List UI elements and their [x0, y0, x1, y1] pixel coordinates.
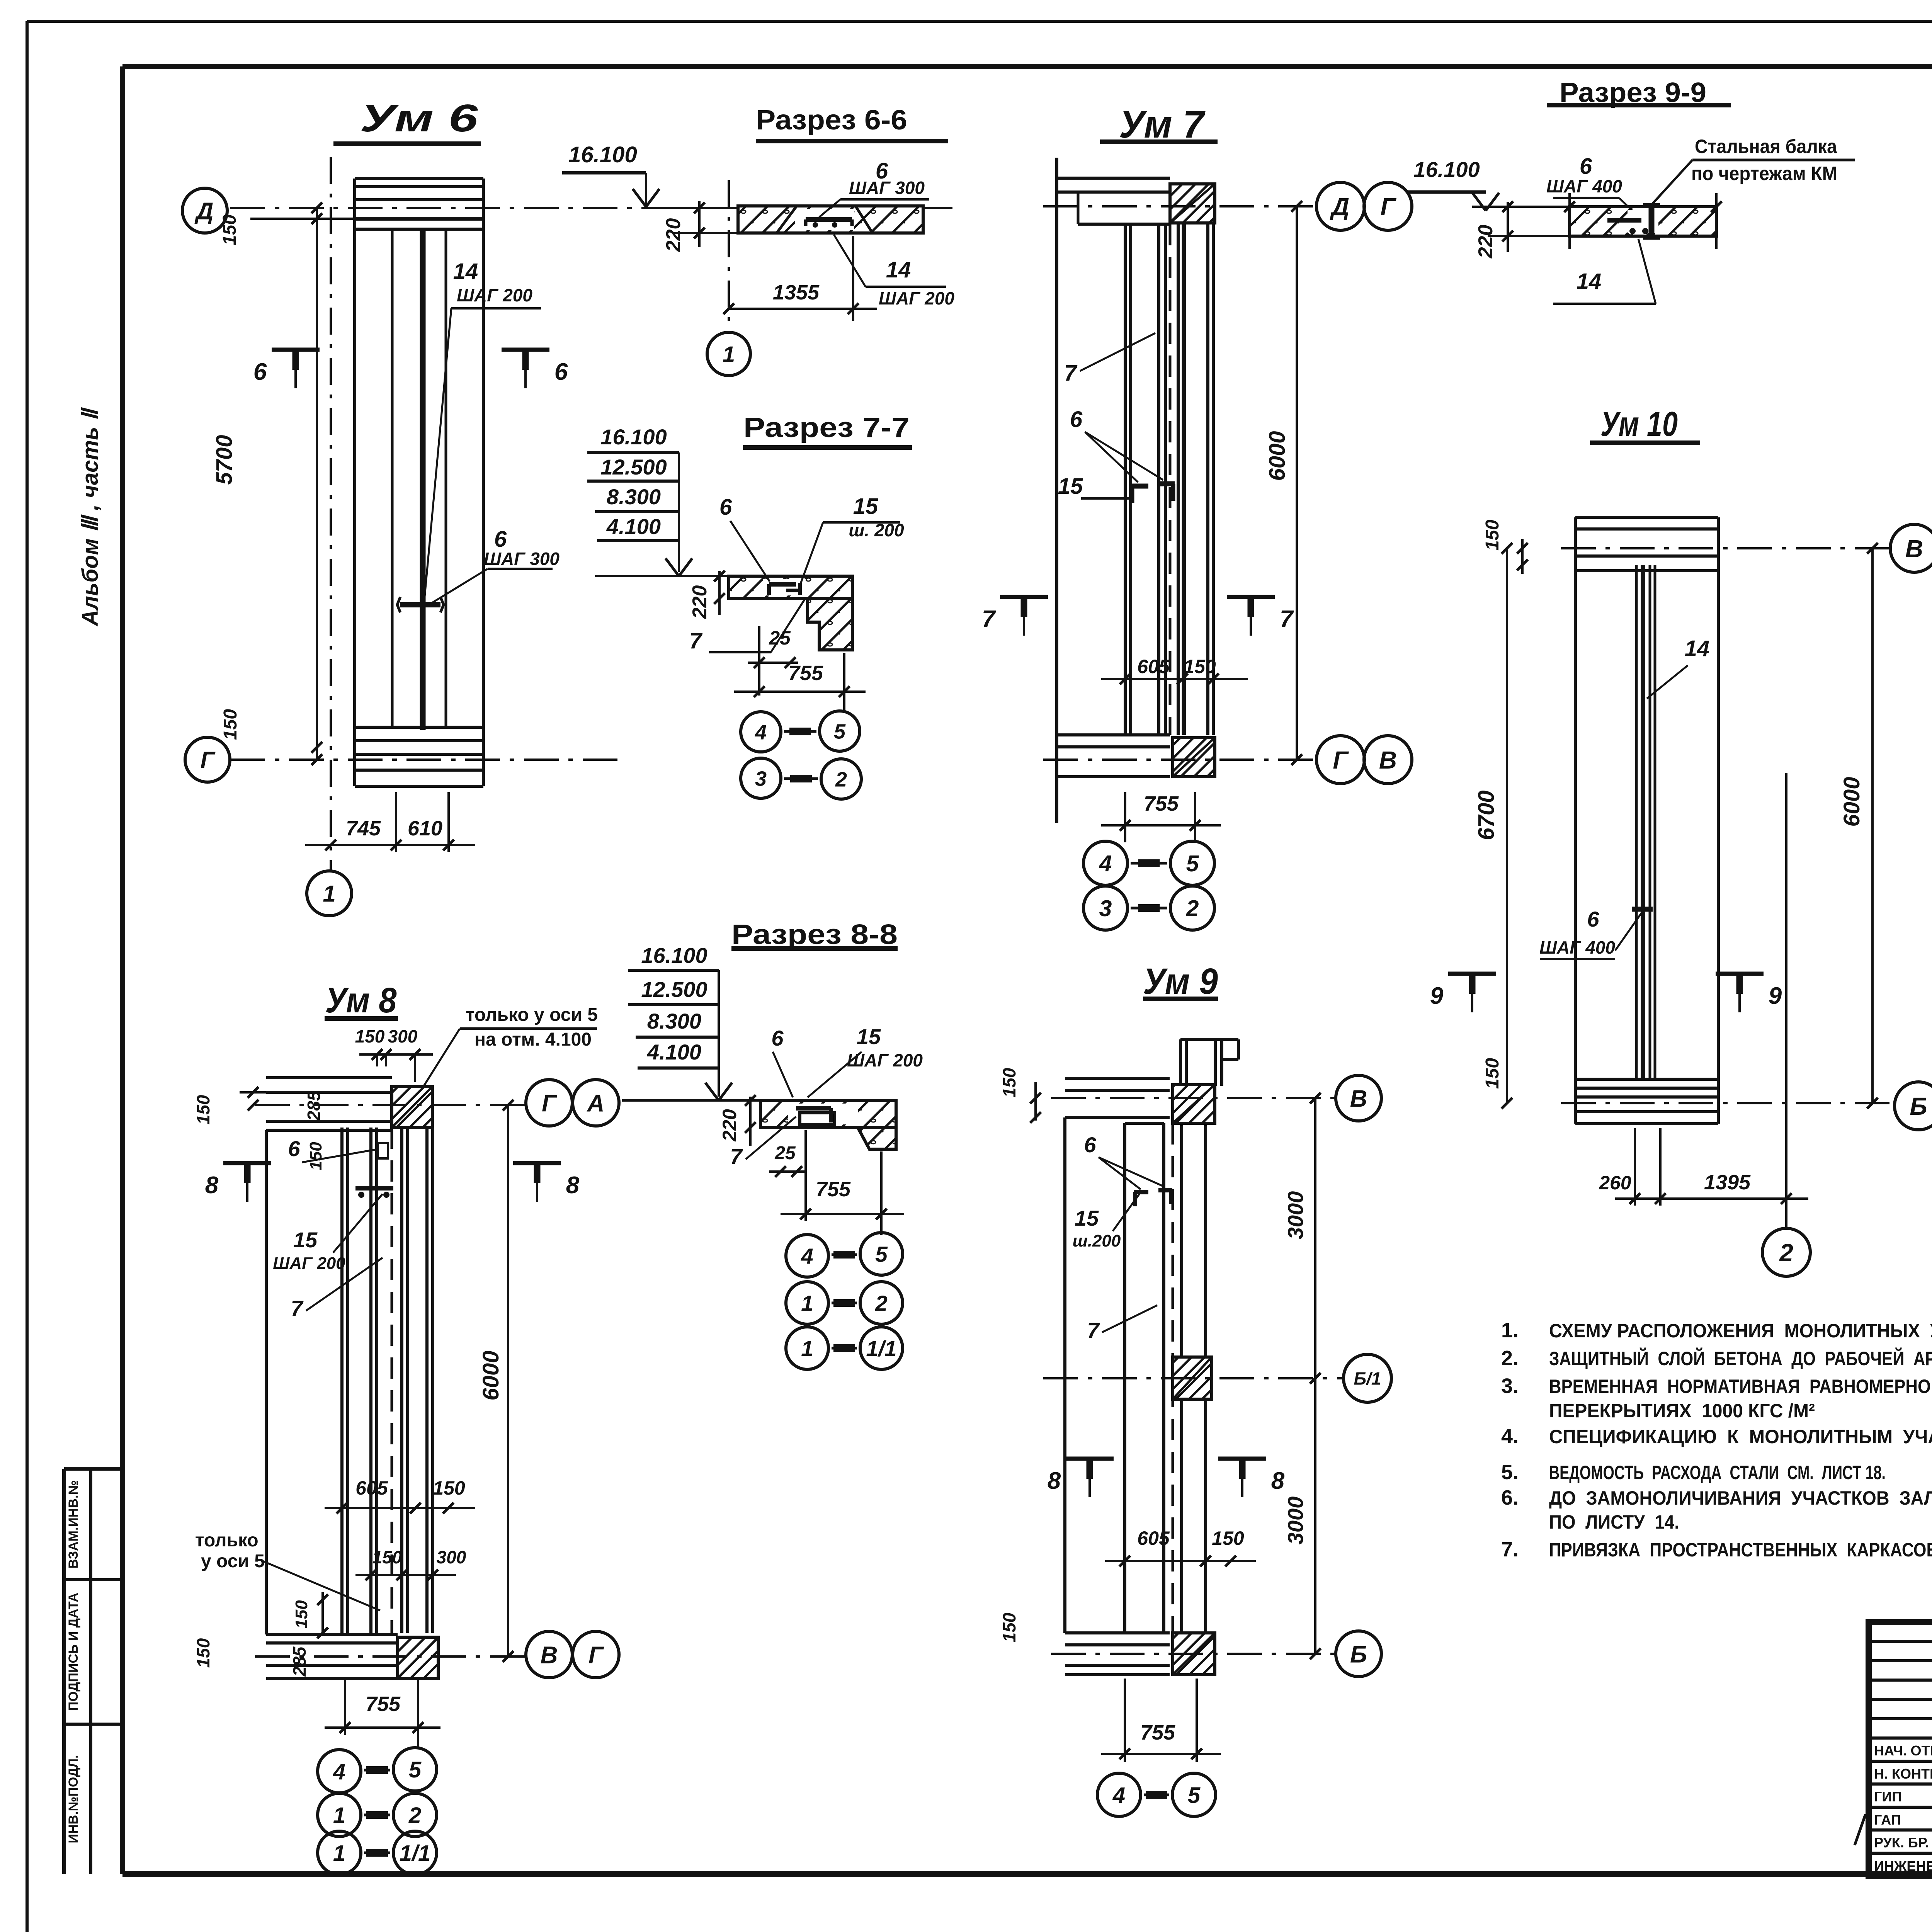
svg-text:8: 8 [205, 1172, 219, 1199]
svg-text:В: В [1905, 535, 1923, 563]
svg-text:5: 5 [1188, 1783, 1201, 1808]
svg-text:Разрез 8-8: Разрез 8-8 [731, 919, 898, 950]
svg-text:СПЕЦИФИКАЦИЮ К МОНОЛИТНЫМ У: СПЕЦИФИКАЦИЮ К МОНОЛИТНЫМ УЧАСТКАМ СМ. Л… [1549, 1426, 1932, 1447]
svg-text:150: 150 [999, 1612, 1019, 1642]
svg-text:по чертежам КМ: по чертежам КМ [1691, 163, 1837, 184]
svg-text:ЗАЩИТНЫЙ СЛОЙ БЕТОНА ДО РА: ЗАЩИТНЫЙ СЛОЙ БЕТОНА ДО РАБОЧЕЙ АРМАТУРЫ… [1549, 1347, 1932, 1369]
svg-text:Ум 6: Ум 6 [360, 97, 479, 140]
svg-text:ШАГ 300: ШАГ 300 [484, 549, 560, 569]
svg-text:15: 15 [293, 1228, 318, 1252]
svg-text:6: 6 [719, 495, 732, 520]
svg-text:3000: 3000 [1283, 1191, 1308, 1240]
svg-text:Б/1: Б/1 [1354, 1369, 1381, 1389]
svg-text:15: 15 [853, 494, 878, 519]
svg-text:14: 14 [886, 257, 911, 282]
svg-text:Альбом Ⅲ , часть Ⅱ: Альбом Ⅲ , часть Ⅱ [78, 407, 103, 627]
svg-text:6: 6 [771, 1026, 784, 1050]
svg-text:1/1: 1/1 [866, 1337, 896, 1361]
svg-text:Г: Г [542, 1090, 558, 1117]
svg-text:ДО ЗАМОНОЛИЧИВАНИЯ УЧАСТКОВ: ДО ЗАМОНОЛИЧИВАНИЯ УЧАСТКОВ ЗАЛОЖИТЬ ВЫП… [1549, 1487, 1932, 1509]
svg-text:150: 150 [999, 1068, 1019, 1097]
svg-text:5: 5 [1186, 851, 1199, 876]
svg-text:5: 5 [875, 1242, 888, 1267]
svg-text:8: 8 [566, 1172, 580, 1199]
svg-text:ш.200: ш.200 [1073, 1231, 1121, 1250]
svg-text:на отм. 4.100: на отм. 4.100 [474, 1029, 592, 1050]
svg-text:25: 25 [769, 627, 791, 649]
svg-text:150: 150 [433, 1477, 465, 1499]
svg-text:605: 605 [1137, 1527, 1170, 1549]
svg-text:8.300: 8.300 [647, 1009, 701, 1033]
svg-text:150: 150 [220, 709, 241, 740]
svg-text:РУК. БР.: РУК. БР. [1874, 1835, 1929, 1850]
svg-text:16.100: 16.100 [1413, 157, 1480, 182]
svg-text:4.: 4. [1501, 1425, 1519, 1448]
svg-text:755: 755 [366, 1692, 401, 1716]
svg-text:7: 7 [1087, 1318, 1100, 1342]
svg-text:1: 1 [801, 1337, 813, 1361]
svg-text:4: 4 [1112, 1783, 1125, 1808]
svg-text:А: А [587, 1090, 605, 1117]
svg-text:ШАГ 400: ШАГ 400 [1546, 176, 1622, 196]
svg-text:6: 6 [494, 527, 507, 552]
svg-text:150: 150 [292, 1600, 311, 1629]
svg-text:14: 14 [1577, 269, 1602, 294]
svg-text:ВЕДОМОСТЬ РАСХОДА СТАЛИ СМ.: ВЕДОМОСТЬ РАСХОДА СТАЛИ СМ. ЛИСТ 18. [1549, 1462, 1886, 1483]
svg-text:у оси 5: у оси 5 [201, 1551, 265, 1571]
svg-text:150: 150 [1212, 1527, 1244, 1549]
svg-text:6: 6 [1070, 407, 1083, 432]
svg-text:ПЕРЕКРЫТИЯХ 1000 КГС /М²: ПЕРЕКРЫТИЯХ 1000 КГС /М² [1549, 1400, 1815, 1422]
svg-text:6: 6 [554, 359, 568, 385]
svg-text:16.100: 16.100 [568, 142, 637, 167]
svg-text:Ум 9: Ум 9 [1143, 961, 1218, 1002]
svg-text:745: 745 [346, 817, 381, 840]
svg-text:2: 2 [408, 1803, 421, 1828]
svg-text:ШАГ 200: ШАГ 200 [879, 288, 954, 308]
svg-text:12.500: 12.500 [641, 977, 707, 1002]
svg-text:5.: 5. [1501, 1461, 1519, 1484]
svg-text:15: 15 [1075, 1206, 1099, 1230]
svg-text:Б: Б [1350, 1641, 1367, 1668]
svg-text:ШАГ 200: ШАГ 200 [273, 1254, 345, 1273]
svg-text:3: 3 [755, 767, 767, 790]
svg-text:ШАГ 200: ШАГ 200 [457, 285, 532, 305]
svg-text:220: 220 [689, 585, 711, 619]
svg-text:СХЕМУ РАСПОЛОЖЕНИЯ МОНОЛИТНЫХ: СХЕМУ РАСПОЛОЖЕНИЯ МОНОЛИТНЫХ УЧАСТКОВ С… [1549, 1320, 1932, 1342]
svg-text:9: 9 [1769, 983, 1782, 1009]
svg-text:В: В [1379, 746, 1397, 774]
svg-text:2: 2 [875, 1291, 888, 1316]
svg-text:2.: 2. [1501, 1347, 1519, 1370]
svg-text:6000: 6000 [1265, 431, 1290, 481]
svg-text:4: 4 [1099, 851, 1112, 876]
svg-text:4.100: 4.100 [647, 1040, 701, 1064]
svg-text:Г: Г [1380, 193, 1396, 221]
svg-text:7: 7 [291, 1296, 304, 1320]
svg-text:6: 6 [253, 359, 267, 385]
svg-text:Н. КОНТР.: Н. КОНТР. [1874, 1766, 1932, 1782]
svg-text:6.: 6. [1501, 1486, 1519, 1509]
svg-text:6000: 6000 [478, 1350, 503, 1400]
svg-text:300: 300 [388, 1026, 418, 1046]
svg-text:150: 150 [355, 1026, 385, 1046]
svg-text:Разрез 7-7: Разрез 7-7 [743, 412, 910, 443]
svg-text:220: 220 [719, 1109, 740, 1142]
svg-text:7: 7 [1280, 606, 1294, 633]
svg-text:5: 5 [834, 720, 846, 743]
svg-text:Ум 8: Ум 8 [325, 981, 397, 1020]
svg-text:ИНЖЕНЕР: ИНЖЕНЕР [1874, 1858, 1932, 1874]
svg-text:755: 755 [1140, 1721, 1175, 1744]
svg-text:150: 150 [193, 1095, 213, 1124]
svg-text:6: 6 [1084, 1133, 1096, 1157]
svg-text:6700: 6700 [1474, 790, 1499, 840]
svg-text:755: 755 [1144, 792, 1179, 815]
svg-text:9: 9 [1430, 983, 1444, 1009]
svg-text:6000: 6000 [1839, 777, 1864, 827]
svg-text:150: 150 [219, 214, 240, 245]
svg-text:Г: Г [1333, 746, 1349, 774]
svg-text:755: 755 [788, 662, 823, 685]
svg-text:Разрез 6-6: Разрез 6-6 [756, 105, 907, 136]
svg-text:2: 2 [1779, 1239, 1793, 1267]
svg-text:2: 2 [835, 768, 847, 791]
svg-text:4: 4 [755, 721, 767, 744]
svg-text:12.500: 12.500 [600, 455, 667, 479]
svg-text:Д: Д [1330, 193, 1349, 221]
svg-text:только: только [195, 1530, 259, 1551]
svg-text:НАЧ. ОТП: НАЧ. ОТП [1874, 1743, 1932, 1759]
svg-text:ШАГ 200: ШАГ 200 [847, 1050, 923, 1070]
svg-text:8: 8 [1048, 1468, 1061, 1494]
svg-text:8.300: 8.300 [607, 485, 661, 509]
svg-text:1395: 1395 [1704, 1171, 1751, 1194]
svg-text:ИНВ.№ПОДЛ.: ИНВ.№ПОДЛ. [66, 1755, 81, 1844]
svg-text:5: 5 [409, 1757, 422, 1782]
svg-text:только у оси 5: только у оси 5 [466, 1005, 598, 1025]
svg-text:15: 15 [857, 1024, 881, 1049]
svg-text:150: 150 [1482, 1058, 1503, 1089]
svg-text:3: 3 [1099, 896, 1112, 921]
svg-text:ШАГ 300: ШАГ 300 [849, 178, 925, 198]
svg-text:25: 25 [774, 1143, 796, 1163]
svg-text:1: 1 [801, 1291, 813, 1316]
svg-text:2: 2 [1186, 896, 1199, 921]
svg-text:610: 610 [408, 817, 442, 840]
svg-text:ПОДПИСЬ И ДАТА: ПОДПИСЬ И ДАТА [66, 1593, 81, 1711]
svg-text:7: 7 [982, 606, 996, 633]
svg-text:ГИП: ГИП [1874, 1789, 1902, 1804]
svg-text:7: 7 [1064, 361, 1078, 386]
svg-text:Г: Г [201, 747, 216, 773]
svg-text:4: 4 [801, 1244, 813, 1269]
svg-text:ВРЕМЕННАЯ НОРМАТИВНАЯ РАВНОМ: ВРЕМЕННАЯ НОРМАТИВНАЯ РАВНОМЕРНО РАСПРЕД… [1549, 1376, 1932, 1397]
svg-text:В: В [1350, 1085, 1367, 1112]
svg-text:150: 150 [193, 1638, 213, 1668]
svg-text:755: 755 [816, 1178, 851, 1201]
svg-text:8: 8 [1271, 1468, 1285, 1494]
svg-text:1355: 1355 [773, 281, 820, 304]
svg-text:3.: 3. [1501, 1374, 1519, 1398]
svg-text:ГАП: ГАП [1874, 1812, 1901, 1828]
svg-text:605: 605 [355, 1477, 388, 1499]
svg-text:4: 4 [333, 1759, 345, 1784]
svg-text:ПО ЛИСТУ 14.: ПО ЛИСТУ 14. [1549, 1511, 1679, 1533]
svg-text:6: 6 [288, 1136, 300, 1161]
svg-text:6: 6 [1587, 907, 1599, 931]
svg-text:16.100: 16.100 [600, 425, 667, 449]
svg-text:260: 260 [1599, 1172, 1631, 1194]
svg-text:Ум 10: Ум 10 [1600, 405, 1678, 444]
svg-text:ПРИВЯЗКА ПРОСТРАНСТВЕННЫХ КА: ПРИВЯЗКА ПРОСТРАНСТВЕННЫХ КАРКАСОВ ДАНА … [1549, 1539, 1932, 1561]
svg-text:605: 605 [1137, 656, 1170, 677]
svg-text:В: В [541, 1642, 558, 1668]
svg-text:150: 150 [1482, 520, 1503, 551]
svg-text:14: 14 [1685, 636, 1710, 661]
svg-text:Стальная балка: Стальная балка [1695, 136, 1837, 157]
svg-text:7: 7 [730, 1144, 743, 1168]
svg-text:Б: Б [1910, 1092, 1927, 1120]
svg-text:3000: 3000 [1283, 1497, 1308, 1545]
svg-text:15: 15 [1058, 474, 1083, 499]
svg-text:220: 220 [662, 218, 685, 252]
svg-text:ВЗАМ.ИНВ.№: ВЗАМ.ИНВ.№ [66, 1480, 81, 1569]
svg-text:150: 150 [306, 1142, 325, 1170]
svg-text:14: 14 [453, 259, 478, 284]
svg-text:1.: 1. [1501, 1319, 1519, 1342]
svg-text:7: 7 [689, 628, 703, 653]
svg-text:4.100: 4.100 [606, 514, 661, 539]
svg-text:220: 220 [1475, 225, 1497, 259]
svg-text:1: 1 [333, 1841, 345, 1866]
svg-text:150: 150 [1184, 656, 1216, 677]
svg-text:1: 1 [723, 342, 735, 367]
svg-text:16.100: 16.100 [641, 943, 707, 968]
svg-text:1/1: 1/1 [400, 1841, 431, 1866]
svg-text:150: 150 [372, 1547, 402, 1567]
svg-text:7.: 7. [1501, 1538, 1519, 1561]
svg-text:1: 1 [333, 1803, 345, 1828]
svg-text:6: 6 [1580, 154, 1592, 179]
svg-text:1: 1 [323, 881, 335, 907]
svg-text:Д: Д [194, 198, 214, 224]
svg-text:285: 285 [289, 1646, 310, 1677]
svg-text:5700: 5700 [212, 435, 237, 485]
svg-text:Г: Г [588, 1642, 604, 1668]
svg-text:ШАГ 400: ШАГ 400 [1539, 937, 1615, 957]
svg-text:300: 300 [437, 1547, 466, 1567]
